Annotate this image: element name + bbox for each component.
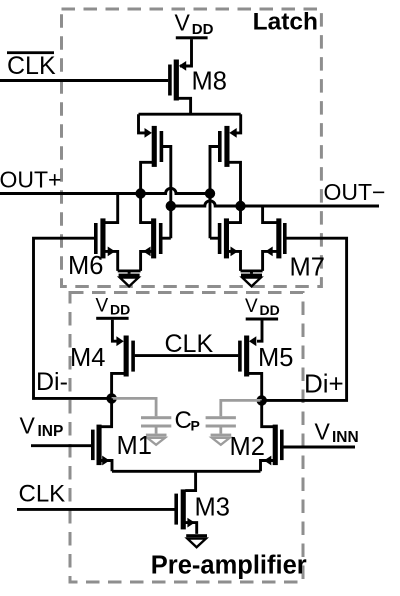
wire left PMOS gate column xyxy=(163,147,171,239)
wire OUT+ with hop xyxy=(0,188,211,193)
svg-text:M6: M6 xyxy=(68,252,103,280)
wire right PMOS gate column xyxy=(210,147,218,239)
transistor NMOS right (cross-coupled) xyxy=(210,206,241,271)
svg-text:INP: INP xyxy=(38,423,64,440)
wire VINP to M1 gate xyxy=(31,444,91,447)
label VINP xyxy=(20,413,64,441)
transistor M6 xyxy=(94,194,118,271)
wire tail node xyxy=(112,470,261,473)
svg-text:M2: M2 xyxy=(230,433,265,461)
svg-text:Di+: Di+ xyxy=(304,369,344,399)
label VINN xyxy=(315,419,359,447)
node dot OUT- right xyxy=(235,201,245,211)
transistor M5 xyxy=(238,321,262,401)
svg-text:DD: DD xyxy=(260,302,280,318)
ground (latch left) xyxy=(118,271,141,287)
capacitor CP right (gray) xyxy=(206,400,262,444)
svg-text:OUT−: OUT− xyxy=(324,179,386,205)
transistor M8 xyxy=(168,39,191,115)
wire M7 gate to Di+ node xyxy=(262,238,347,400)
transistor M2 xyxy=(261,400,284,471)
wire M6 gate to Di- node xyxy=(34,238,112,398)
wire CLKbar to M8 gate xyxy=(0,79,168,82)
transistor PMOS left (cross-coupled) xyxy=(139,114,164,193)
svg-text:C: C xyxy=(175,407,192,434)
svg-text:CLK: CLK xyxy=(7,52,56,80)
svg-text:INN: INN xyxy=(332,429,359,446)
node dot OUT+ left xyxy=(135,188,145,198)
transistor M3 xyxy=(174,471,196,534)
svg-text:M4: M4 xyxy=(70,344,105,372)
svg-text:P: P xyxy=(191,418,200,434)
svg-text:V: V xyxy=(315,419,331,445)
wire OUT- with hop xyxy=(171,201,379,206)
svg-text:M3: M3 xyxy=(195,494,230,522)
node Di- dot xyxy=(106,393,116,403)
svg-text:M8: M8 xyxy=(192,68,227,96)
svg-text:CLK: CLK xyxy=(165,330,214,358)
svg-text:M5: M5 xyxy=(258,344,293,372)
capacitor CP left (gray) xyxy=(112,398,172,444)
label CP xyxy=(175,407,200,434)
svg-text:CLK: CLK xyxy=(19,481,66,508)
svg-text:M1: M1 xyxy=(117,432,152,460)
svg-text:Latch: Latch xyxy=(253,9,318,36)
svg-text:V: V xyxy=(20,413,36,439)
svg-text:Di-: Di- xyxy=(36,368,68,396)
svg-text:V: V xyxy=(96,296,109,317)
Pre-amplifier dashed box xyxy=(70,293,303,583)
transistor PMOS right (cross-coupled) xyxy=(218,114,241,206)
svg-text:Pre-amplifier: Pre-amplifier xyxy=(151,552,307,580)
wire VINN to M2 gate xyxy=(283,446,355,449)
node Di+ dot xyxy=(257,395,267,405)
power VDD (top) xyxy=(175,10,214,40)
wire rail from M8 drain xyxy=(139,113,241,116)
power VDD (pre-amp right) xyxy=(245,296,280,320)
wire CLK net M4-M5 gates xyxy=(135,354,239,357)
svg-text:DD: DD xyxy=(110,302,130,318)
transistor M1 xyxy=(91,398,112,471)
svg-text:V: V xyxy=(175,10,191,36)
transistor M7 xyxy=(263,206,287,271)
node dot OUT+ right xyxy=(205,188,215,198)
node dot OUT- left xyxy=(166,201,176,211)
ground (latch right) xyxy=(241,271,263,287)
svg-text:M7: M7 xyxy=(290,254,325,282)
svg-text:DD: DD xyxy=(192,21,214,38)
Latch dashed box xyxy=(62,9,322,287)
transistor NMOS left (cross-coupled) xyxy=(141,194,171,271)
ground (M3) xyxy=(186,534,207,547)
svg-text:V: V xyxy=(245,296,258,317)
label CLKbar xyxy=(7,51,56,80)
svg-text:OUT+: OUT+ xyxy=(0,167,61,193)
transistor M4 xyxy=(112,320,135,399)
power VDD (pre-amp left) xyxy=(96,296,131,320)
wire CLK to M3 gate xyxy=(17,508,175,511)
